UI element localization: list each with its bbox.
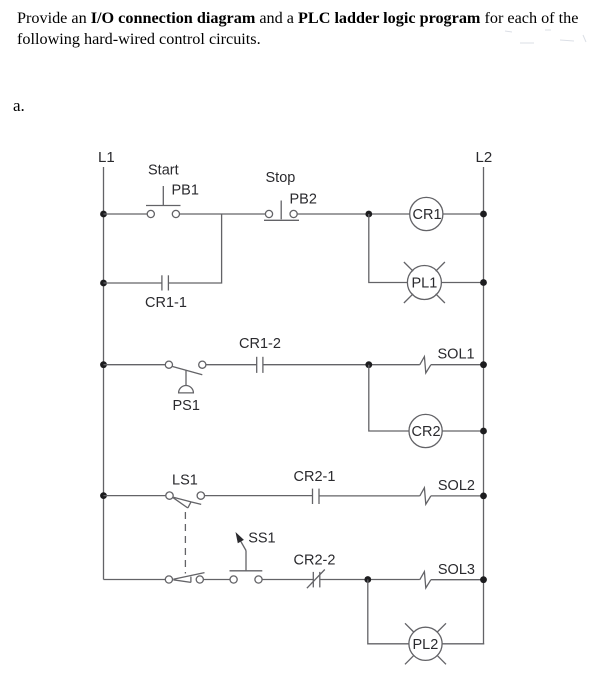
pushbutton PB2 (Stop, NC) (264, 201, 299, 221)
wire CR1 to L2 (443, 213, 484, 215)
svg-text:L2: L2 (476, 149, 493, 166)
limit switch LS1 second contact (NC) (165, 573, 204, 584)
wire rung3 left (104, 495, 167, 497)
svg-text:PL2: PL2 (413, 637, 439, 653)
wire PL2 to L2 (442, 643, 484, 645)
junction dot rung1 L1 (100, 211, 107, 218)
svg-text:SOL1: SOL1 (438, 347, 475, 363)
mechanical link dashed (184, 512, 186, 574)
contact CR2-1 (NO) (313, 489, 320, 504)
faint scan smudges top right (decorative noise kept subtle) (505, 30, 586, 43)
wire SOL2 to L2 (431, 495, 484, 497)
svg-text:PL1: PL1 (412, 276, 438, 292)
junction dot rung4 branch (364, 576, 371, 583)
wire PL1 to L2 (441, 282, 483, 284)
wire PL2 branch down (368, 580, 409, 644)
junction dot CR2 L2 (480, 428, 487, 435)
wire LS1 to CR2-1 (205, 495, 313, 497)
wire rung2 left (104, 364, 166, 366)
rail L1 (103, 167, 105, 580)
contact CR1-1 (NO) (162, 275, 169, 290)
wire CR1-2 to SOL1 (263, 364, 420, 366)
junction dot rung3 L2 (480, 493, 487, 500)
wire CR1-1 right and up (168, 214, 221, 283)
wire CR1-1 left (104, 282, 162, 284)
svg-text:SS1: SS1 (248, 531, 275, 547)
pilot light PL2 (405, 623, 446, 664)
contact CR1-2 (NO) (257, 357, 263, 373)
svg-text:PB2: PB2 (290, 192, 317, 208)
junction dot rung4 L2 (480, 576, 487, 583)
svg-text:CR1-1: CR1-1 (145, 295, 187, 311)
svg-text:L1: L1 (98, 149, 115, 166)
svg-text:PS1: PS1 (173, 398, 200, 414)
junction dot rung2 branch (365, 361, 372, 368)
junction dot rung2 L1 (100, 361, 107, 368)
svg-text:CR1: CR1 (413, 207, 442, 223)
svg-text:Start: Start (148, 163, 179, 179)
wire SOL1 to L2 (431, 364, 484, 366)
coil CR1 (410, 197, 443, 230)
pilot light PL1 (404, 262, 445, 303)
solenoid SOL1 (420, 357, 431, 373)
pushbutton PB1 (Start, NO) (146, 186, 181, 218)
svg-text:CR2-1: CR2-1 (294, 469, 336, 485)
junction dot PL1 L2 (480, 279, 487, 286)
contact CR2-2 (NC) (307, 570, 325, 589)
junction dot rung1 L2 (480, 211, 487, 218)
item label a. (13, 96, 25, 116)
junction dot rung3 L1 (100, 492, 107, 499)
solenoid SOL2 (420, 488, 431, 504)
wire PS1 to CR1-2 (206, 364, 257, 366)
svg-text:LS1: LS1 (172, 473, 198, 489)
wire CR2-1 to SOL2 (319, 495, 420, 497)
pressure switch PS1 (NO) (165, 361, 206, 393)
wire rung1 left (104, 213, 148, 215)
svg-text:Stop: Stop (266, 170, 296, 186)
svg-text:SOL3: SOL3 (438, 562, 475, 578)
wire CR2-2 to SOL3 (320, 579, 420, 581)
junction dot rung1 branch (365, 211, 372, 218)
rail L2 (483, 167, 485, 645)
svg-text:CR1-2: CR1-2 (239, 336, 281, 352)
junction dot CR1-1 L1 (100, 280, 107, 287)
header instruction text (17, 8, 615, 50)
svg-text:CR2: CR2 (412, 424, 441, 440)
wire SS1 to CR2-2 (262, 579, 313, 581)
wire PB2 to CR1 (297, 213, 410, 215)
wire rung4 left (104, 579, 166, 581)
limit switch LS1 (NO) (166, 492, 205, 508)
svg-text:PB1: PB1 (172, 183, 199, 199)
selector switch SS1 (203, 532, 262, 583)
wire CR2 to L2 (442, 430, 483, 432)
junction dot rung2 L2 (480, 361, 487, 368)
wire PL1 branch down (369, 214, 408, 283)
svg-text:CR2-2: CR2-2 (294, 552, 336, 568)
wire CR2 branch down (369, 365, 409, 431)
svg-text:SOL2: SOL2 (438, 478, 475, 494)
coil CR2 (409, 414, 442, 447)
wire SOL3 to L2 (431, 579, 484, 581)
wire PB1 to PB2 (180, 213, 266, 215)
solenoid SOL3 (420, 572, 431, 588)
